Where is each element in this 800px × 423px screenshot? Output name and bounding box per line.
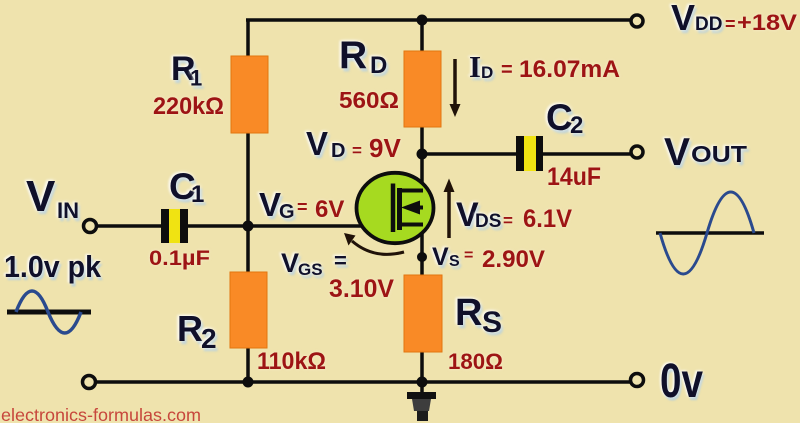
wire: drain-source vertical (RD to ground) [420, 19, 424, 393]
transistor Q1 (MOSFET) [357, 173, 434, 243]
arrow: VDS (up) [444, 179, 455, 239]
svg-text:0v: 0v [660, 355, 703, 408]
resistor RD [404, 51, 441, 127]
node: gate / divider junction [243, 221, 254, 232]
terminal 0v [631, 374, 644, 387]
wire: R1-R2 vertical (left branch) [246, 19, 250, 382]
svg-text:560Ω: 560Ω [339, 87, 399, 113]
svg-text:180Ω: 180Ω [448, 349, 503, 374]
wire: output horizontal through C2 [422, 152, 632, 156]
wire: bottom 0v rail [95, 380, 632, 384]
svg-text:14uF: 14uF [547, 163, 601, 191]
node: bottom rail / source junction [417, 377, 428, 388]
arrow: ID current (down) [450, 59, 461, 117]
svg-text:0.1µF: 0.1µF [149, 247, 210, 270]
input sine wave [7, 291, 91, 333]
capacitor C2 [516, 136, 543, 171]
node: drain / output junction [417, 149, 428, 160]
wire: gate horizontal from VIN through C1 [96, 224, 394, 228]
svg-text:1.0v pk: 1.0v pk [4, 249, 102, 284]
terminal VDD [631, 15, 643, 27]
svg-text:electronics-formulas.com: electronics-formulas.com [1, 405, 201, 423]
node: top rail / drain junction [417, 15, 428, 26]
output sine wave [656, 192, 764, 274]
terminal VOUT [631, 146, 643, 158]
capacitor C1 [161, 209, 188, 243]
wire: top VDD rail [246, 18, 632, 22]
svg-text:3.10V: 3.10V [329, 275, 394, 303]
resistor R1 [231, 56, 268, 133]
svg-text:110kΩ: 110kΩ [257, 348, 326, 375]
resistor RS [404, 275, 442, 352]
resistor R2 [230, 272, 267, 348]
node: source Vs [417, 252, 427, 262]
terminal bottom-left [83, 376, 96, 389]
ground [407, 392, 436, 421]
arrow: VGS curved [344, 233, 404, 254]
svg-text:220kΩ: 220kΩ [153, 93, 224, 120]
terminal VIN [84, 220, 97, 233]
node: bottom rail / divider junction [243, 377, 254, 388]
